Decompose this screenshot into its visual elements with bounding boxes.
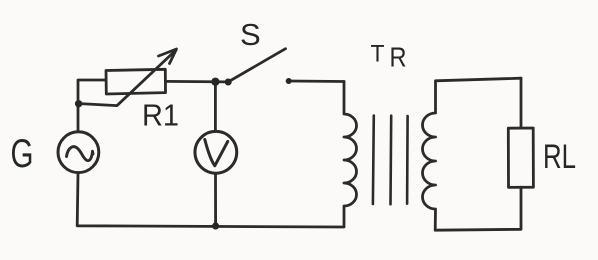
svg-text:RL: RL: [543, 138, 576, 176]
svg-text:G: G: [11, 132, 34, 176]
svg-text:T: T: [371, 41, 385, 68]
svg-text:R: R: [390, 41, 407, 72]
svg-text:S: S: [240, 17, 261, 52]
svg-text:R1: R1: [142, 98, 179, 133]
